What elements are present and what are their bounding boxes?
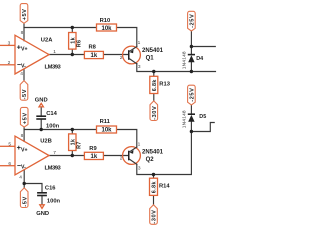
svg-text:2: 2 <box>8 60 11 66</box>
wire Q2 collector row up through D5 <box>137 122 192 175</box>
resistor R7 1k <box>69 134 83 151</box>
wire -25V flag to D5 <box>190 104 192 113</box>
wire U2B pin4 to -5V flag <box>23 170 25 188</box>
op-amp U2A <box>0 35 62 74</box>
wire U2B output to R9 to Q2 base <box>49 155 128 157</box>
svg-text:3: 3 <box>138 166 141 172</box>
svg-text:4: 4 <box>19 175 22 181</box>
resistor R6 1k <box>69 33 83 50</box>
svg-text:1: 1 <box>138 40 141 46</box>
supply flag -30V (R14) <box>150 205 158 225</box>
Q1 pin numbers <box>120 40 141 70</box>
svg-text:7: 7 <box>53 150 56 156</box>
diode D4 1N4148 <box>181 51 203 69</box>
svg-text:LM393: LM393 <box>45 65 62 71</box>
U2A pin numbers <box>8 30 57 77</box>
svg-text:100n: 100n <box>46 123 60 129</box>
wire U2A output to R8 to Q1 base <box>49 54 128 56</box>
supply flag -25V (D5) <box>188 85 196 105</box>
svg-text:1k: 1k <box>91 53 98 59</box>
transistor Q1 2N5401 <box>123 46 164 64</box>
svg-text:6.8k: 6.8k <box>152 79 158 91</box>
capacitor C16 100n <box>37 185 60 204</box>
svg-text:10k: 10k <box>101 26 112 32</box>
wire Q1 collector row <box>137 64 216 72</box>
svg-text:4: 4 <box>20 71 23 77</box>
svg-text:R8: R8 <box>89 44 97 50</box>
ground GND (C14) <box>35 98 48 107</box>
svg-text:-25V: -25V <box>190 88 196 102</box>
transistor Q2 2N5401 <box>123 147 164 165</box>
resistor R10 10k <box>97 18 117 32</box>
diode D5 1N4148 <box>181 110 206 128</box>
svg-text:V+: V+ <box>21 47 28 53</box>
svg-text:U2B: U2B <box>40 139 52 145</box>
Q2 pin numbers <box>120 141 141 171</box>
svg-text:8: 8 <box>21 30 24 36</box>
svg-text:R10: R10 <box>100 18 111 24</box>
svg-text:2N5401: 2N5401 <box>142 149 164 155</box>
svg-text:R11: R11 <box>100 119 111 125</box>
svg-text:V+: V+ <box>21 148 28 154</box>
svg-text:8: 8 <box>21 133 24 139</box>
svg-text:-5V: -5V <box>22 89 28 100</box>
wire D4 anode to collector row <box>190 62 192 71</box>
svg-text:1N4148: 1N4148 <box>181 110 187 128</box>
svg-text:1: 1 <box>53 49 56 55</box>
svg-text:-5V: -5V <box>22 196 28 207</box>
svg-text:R14: R14 <box>159 183 170 189</box>
svg-text:+5V: +5V <box>22 8 28 20</box>
svg-text:R6: R6 <box>77 40 83 48</box>
svg-text:+5V: +5V <box>22 112 28 124</box>
U2B pin numbers <box>8 133 56 181</box>
op-amp U2B <box>0 136 62 175</box>
wire R14 column <box>153 175 155 205</box>
svg-text:10k: 10k <box>101 128 112 134</box>
ground GND (C16) <box>36 205 49 217</box>
supply flag +5V (U2A) <box>20 4 28 24</box>
wire -25V flag to D4 <box>190 31 192 55</box>
svg-text:3: 3 <box>8 40 11 46</box>
svg-text:C16: C16 <box>45 185 56 191</box>
resistor R14 6.8k <box>150 178 171 195</box>
svg-text:LM393: LM393 <box>45 166 62 172</box>
svg-text:R9: R9 <box>89 146 97 152</box>
svg-text:1k: 1k <box>91 154 98 160</box>
svg-text:6.8k: 6.8k <box>152 181 158 193</box>
svg-text:1: 1 <box>138 141 141 147</box>
svg-text:2: 2 <box>120 156 123 162</box>
svg-text:-30V: -30V <box>152 106 158 120</box>
resistor R13 6.8k <box>150 76 171 93</box>
wire U2A pin4 to -5V flag <box>23 69 25 80</box>
wire C16 to GND <box>41 196 43 205</box>
capacitor C14 100n <box>36 111 59 129</box>
svg-text:-25V: -25V <box>190 14 196 28</box>
svg-text:5: 5 <box>8 141 11 147</box>
supply flag +5V (U2B) <box>20 107 28 127</box>
supply flag -5V (U2A) <box>20 81 28 101</box>
wire U2B pin8 <box>23 130 25 142</box>
svg-text:Q2: Q2 <box>146 157 155 163</box>
resistor R8 1k <box>84 44 103 59</box>
wire R6 column (rail to U2A output) <box>71 28 73 55</box>
wire U2A pin8 to +5V rail <box>23 28 25 41</box>
wire C14 to rail 2 <box>40 119 42 129</box>
svg-text:1N4148: 1N4148 <box>181 51 187 69</box>
svg-text:D5: D5 <box>199 114 206 120</box>
svg-text:GND: GND <box>36 211 49 217</box>
svg-text:C14: C14 <box>46 111 57 117</box>
wire pin4 branch to C16 <box>24 184 42 193</box>
wire R7 column <box>71 130 73 156</box>
svg-text:100n: 100n <box>47 198 61 204</box>
wire -25V row right <box>191 46 215 48</box>
svg-text:V-: V- <box>21 63 26 69</box>
svg-text:6: 6 <box>8 161 11 167</box>
wire +5V rail 2 to R11 and Q2 emitter <box>24 127 137 147</box>
wire GND to C14 <box>40 107 42 117</box>
svg-text:R13: R13 <box>159 82 170 88</box>
wire R13 column <box>153 72 155 101</box>
wire +5V rail to R10 and Q1 emitter <box>24 23 137 47</box>
supply flag -25V (D4) <box>188 11 196 31</box>
svg-text:R7: R7 <box>77 141 83 149</box>
resistor R11 10k <box>97 119 117 134</box>
wire stub from D5 node right <box>191 123 214 132</box>
supply flag -5V (U2B) <box>20 188 28 208</box>
svg-text:2N5401: 2N5401 <box>142 48 164 54</box>
svg-text:V-: V- <box>21 164 26 170</box>
svg-text:Q1: Q1 <box>146 56 155 62</box>
svg-text:D4: D4 <box>196 56 203 62</box>
svg-text:2: 2 <box>120 55 123 61</box>
svg-text:-30V: -30V <box>152 209 158 223</box>
supply flag -30V (R13) <box>150 101 158 121</box>
resistor R9 1k <box>84 146 103 160</box>
svg-text:3: 3 <box>138 64 141 70</box>
svg-text:U2A: U2A <box>41 38 53 44</box>
